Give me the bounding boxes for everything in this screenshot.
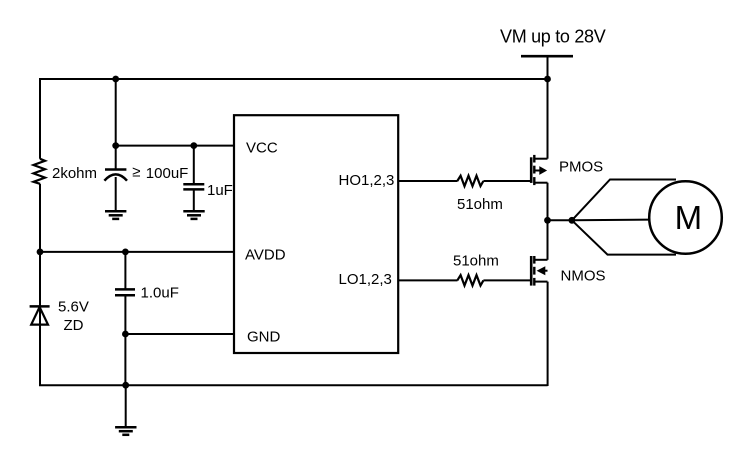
diode D1 zener 5.6V — [30, 306, 50, 324]
ground under 100uF — [105, 211, 126, 219]
node top rail 100uF branch — [112, 76, 119, 83]
svg-text:GND: GND — [247, 329, 281, 346]
node AVDD left rail — [37, 249, 44, 256]
capacitor C1 100uF electrolytic — [104, 146, 127, 211]
wire bottom rail — [39, 384, 548, 386]
ground main — [115, 385, 136, 435]
svg-text:NMOS: NMOS — [561, 268, 606, 285]
svg-text:LO1,2,3: LO1,2,3 — [339, 271, 392, 288]
capacitor C2 1uF — [183, 146, 204, 211]
wire output node to fan point — [548, 219, 572, 221]
wire output node to NMOS drain — [547, 220, 549, 259]
svg-text:1uF: 1uF — [207, 182, 233, 199]
svg-text:≥: ≥ — [132, 163, 140, 180]
svg-text:VCC: VCC — [246, 140, 278, 157]
svg-text:PMOS: PMOS — [559, 159, 603, 176]
svg-text:AVDD: AVDD — [245, 246, 286, 263]
wire 100uF branch drop — [115, 79, 117, 146]
node VCC 1uF — [190, 142, 197, 149]
svg-text:ZD: ZD — [64, 317, 84, 334]
wire PMOS drain to output node — [547, 183, 549, 221]
wire top rail — [39, 78, 548, 80]
wire AVDD — [40, 251, 234, 253]
node bottom rail ground — [122, 382, 129, 389]
transistor Q1 PMOS — [531, 155, 547, 185]
wire GND pin — [125, 333, 234, 335]
wire 1.0uF to bottom rail — [124, 334, 126, 385]
wire HO pin to resistor — [398, 180, 457, 182]
svg-text:5.6V: 5.6V — [58, 299, 89, 316]
node AVDD 1.0uF — [122, 249, 129, 256]
transistor Q2 NMOS — [531, 256, 547, 286]
wire resistor to NMOS gate — [483, 279, 531, 281]
resistor R3 51ohm low side — [457, 275, 483, 285]
svg-text:1.0uF: 1.0uF — [141, 285, 179, 302]
wire VCC — [116, 145, 234, 147]
svg-text:VM up to 28V: VM up to 28V — [500, 27, 606, 47]
svg-text:51ohm: 51ohm — [457, 196, 503, 213]
node VCC 100uF — [112, 142, 119, 149]
motor M1 body — [649, 181, 722, 254]
node fan point — [569, 217, 576, 224]
capacitor C3 1.0uF — [115, 252, 135, 334]
svg-text:51ohm: 51ohm — [453, 252, 499, 269]
svg-text:2kohm: 2kohm — [52, 165, 97, 182]
resistor R1 2kohm — [34, 159, 46, 184]
wire LO pin to resistor — [398, 279, 457, 281]
node VM junction — [544, 76, 551, 83]
wire left rail upper — [39, 78, 41, 159]
wire left rail lower — [39, 184, 41, 386]
svg-text:M: M — [675, 199, 703, 236]
wire resistor to PMOS gate — [483, 180, 531, 182]
wire motor lead top — [572, 180, 676, 221]
node GND 1.0uF — [122, 331, 129, 338]
wire motor lead bottom — [572, 220, 676, 254]
VM power rail bar — [521, 55, 573, 58]
node output — [544, 217, 551, 224]
svg-text:HO1,2,3: HO1,2,3 — [339, 172, 395, 189]
svg-text:100uF: 100uF — [146, 165, 189, 182]
wire NMOS source down — [547, 282, 549, 386]
wire VM drop to PMOS source — [547, 56, 549, 159]
wire motor lead middle — [572, 219, 650, 222]
IC U1 driver box — [234, 115, 398, 353]
resistor R2 51ohm high side — [457, 176, 483, 186]
ground under 1uF — [183, 211, 204, 219]
